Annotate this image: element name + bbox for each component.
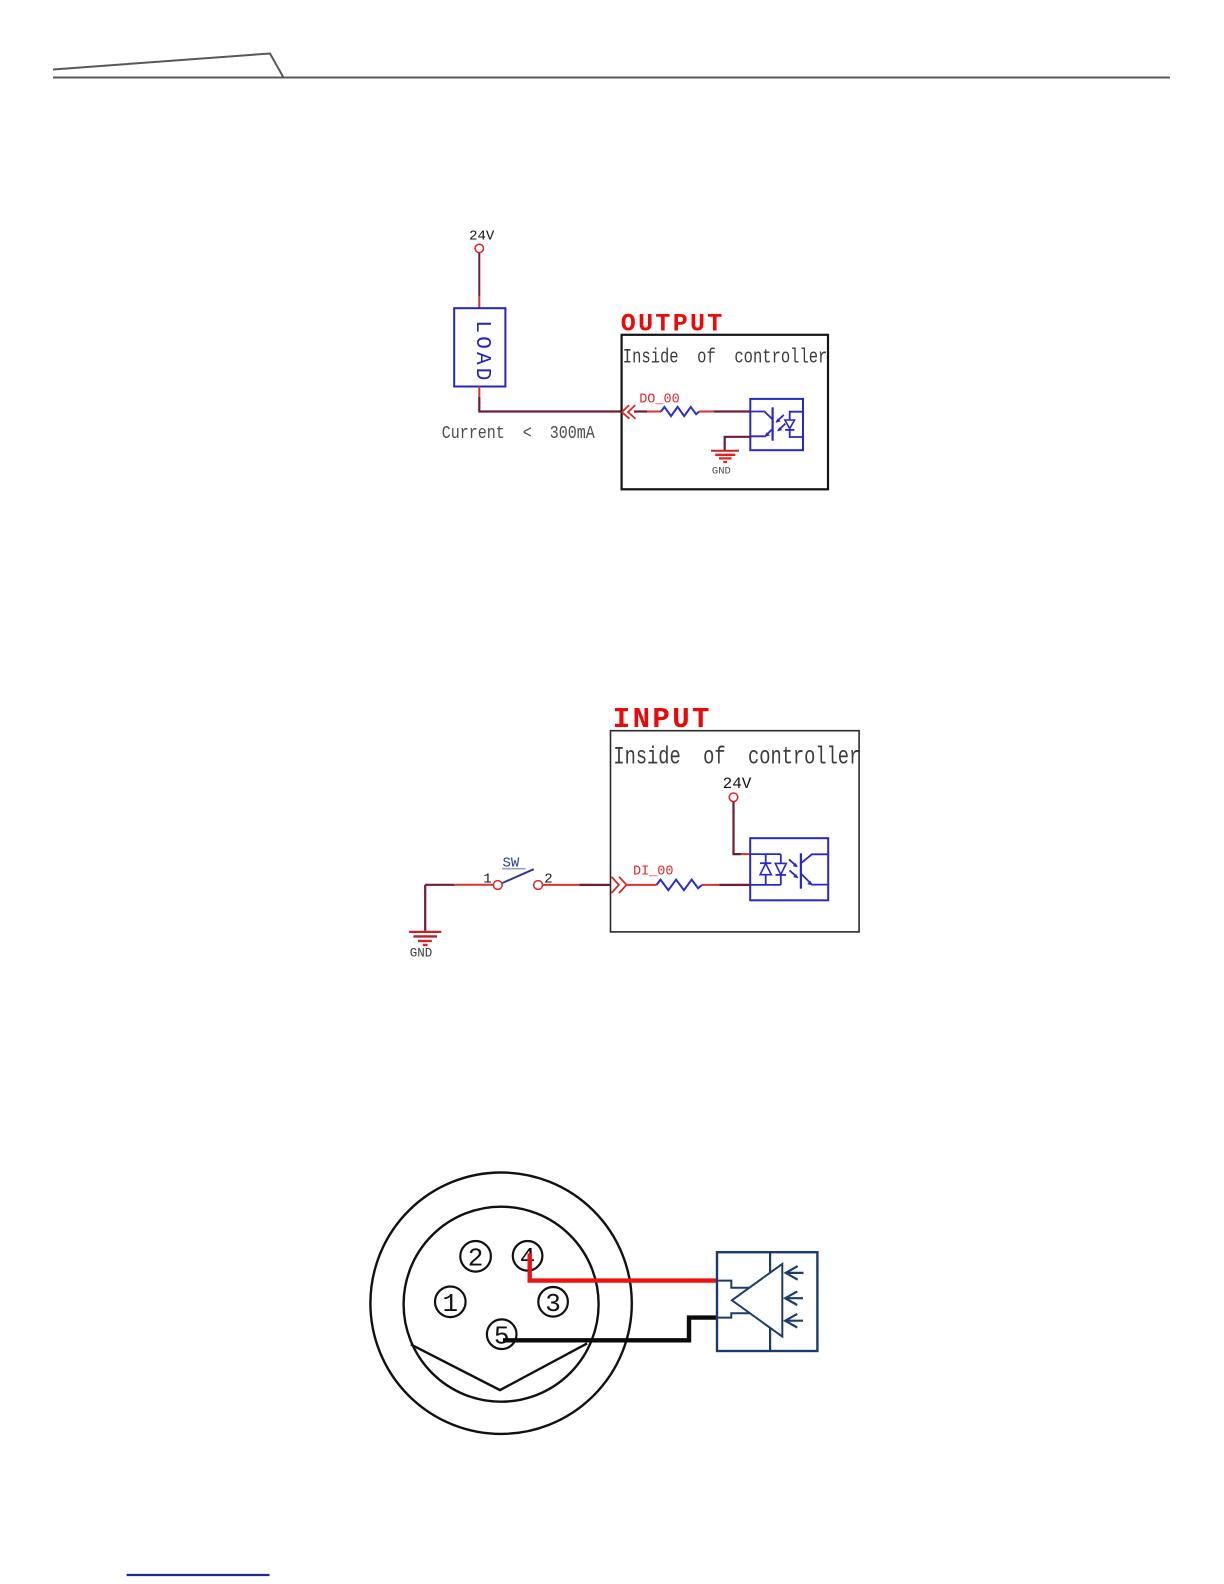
svg-text:24V: 24V xyxy=(723,775,752,793)
switch SW underline xyxy=(502,868,526,870)
photo sensor cathode pin step xyxy=(717,1313,750,1317)
U-in phototransistor base bar xyxy=(800,853,802,888)
svg-text:3: 3 xyxy=(545,1289,561,1319)
switch pin 2 circle xyxy=(534,881,543,890)
controller box (output) xyxy=(622,335,828,490)
svg-text:1: 1 xyxy=(442,1289,458,1319)
resistor LOAD box xyxy=(454,308,505,386)
pin stub resistor R-out left xyxy=(647,411,661,413)
svg-text:DI_00: DI_00 xyxy=(633,864,674,879)
photodiode triangle xyxy=(732,1264,782,1337)
resistor R-out zigzag xyxy=(661,407,699,416)
ground GND (input) xyxy=(409,931,441,933)
wire GND to switch pin 1 xyxy=(425,884,454,886)
svg-text:GND: GND xyxy=(712,466,731,478)
U-out LED cathode lead xyxy=(790,430,803,437)
connector pin 5 xyxy=(487,1319,517,1349)
wire switch pin 2 to DI_00 port xyxy=(543,884,580,886)
svg-text:GND: GND xyxy=(410,947,433,961)
connector keyway V xyxy=(411,1343,587,1390)
wire 24V to U-in xyxy=(734,802,742,854)
power terminal circle 24V (input) xyxy=(729,793,738,802)
pin stub U-in anode xyxy=(741,853,750,855)
U-in top rail xyxy=(750,853,781,855)
wire 24V to LOAD xyxy=(478,253,480,296)
header rule xyxy=(53,77,1170,79)
wire U-out emitter to GND xyxy=(725,437,751,451)
header tab diagonal xyxy=(53,54,284,78)
U-in bottom rail xyxy=(750,884,781,886)
controller box (input) xyxy=(611,731,860,932)
wire resistor to U-in xyxy=(720,884,751,886)
U-in phototransistor emitter with arrow xyxy=(801,874,828,885)
photo sensor anode pin step xyxy=(717,1281,750,1288)
light arrow 3 xyxy=(785,1314,797,1328)
port chevron >> DI_00 xyxy=(612,877,619,893)
U-out LED triangle xyxy=(785,420,795,429)
light arrow 2 xyxy=(785,1291,797,1305)
U-in light arrow 1 xyxy=(789,859,797,866)
photo sensor box xyxy=(717,1252,817,1351)
red wire pin4 to sensor xyxy=(530,1254,717,1281)
photo sensor divider xyxy=(769,1252,771,1351)
U-in LED D1 lower stub xyxy=(765,875,767,885)
optocoupler U-in box xyxy=(750,838,828,900)
U-in LED D1 cathode bar xyxy=(760,862,771,864)
power terminal circle 24V (output) xyxy=(475,244,483,252)
connector pin 2 xyxy=(460,1241,491,1272)
connector pin 1 xyxy=(435,1287,466,1318)
U-out light arrow 2 xyxy=(778,424,785,431)
footer rule xyxy=(127,1574,270,1576)
U-in LED D2 lower stub xyxy=(780,875,782,885)
U-in LED D2 triangle (down) xyxy=(775,863,786,874)
optocoupler U-out box xyxy=(750,399,803,450)
resistor R-in zigzag xyxy=(657,880,702,891)
U-in LED D1 up stub xyxy=(765,854,767,863)
svg-text:2: 2 xyxy=(468,1244,484,1274)
black wire pin5 to sensor xyxy=(503,1318,717,1341)
pin stub resistor R-out right xyxy=(699,411,713,413)
U-in LED D1 triangle (up) xyxy=(760,863,771,874)
pin stub LOAD top xyxy=(478,296,480,308)
svg-text:Current < 300mA: Current < 300mA xyxy=(442,423,596,444)
svg-text:LOAD: LOAD xyxy=(470,320,493,383)
pin stub LOAD bottom xyxy=(478,387,480,398)
pin stub resistor R-in left xyxy=(627,884,657,886)
wire DO_00 chevron to resistor xyxy=(634,410,647,412)
connector outer circle xyxy=(370,1173,631,1434)
ground GND (output) xyxy=(711,450,739,452)
wire resistor to optocoupler U-out xyxy=(714,410,751,412)
pin stub resistor R-in right xyxy=(702,884,720,886)
svg-text:24V: 24V xyxy=(469,229,495,245)
U-out LED cathode bar xyxy=(785,429,794,431)
svg-text:DO_00: DO_00 xyxy=(639,393,680,408)
connector inner circle xyxy=(404,1207,599,1402)
U-out LED anode lead xyxy=(790,412,803,420)
connector pin 4 xyxy=(513,1241,543,1271)
svg-text:Inside of controller: Inside of controller xyxy=(623,347,828,369)
port chevron << DO_00 xyxy=(622,405,630,419)
U-out phototransistor collector xyxy=(750,412,772,420)
switch pin 1 circle xyxy=(493,881,502,890)
svg-text:Inside of controller: Inside of controller xyxy=(613,743,860,771)
svg-text:5: 5 xyxy=(494,1322,510,1352)
U-out light arrow 1 xyxy=(776,415,783,422)
U-in LED D2 cathode bar xyxy=(776,874,787,876)
switch blade xyxy=(502,869,533,883)
wire LOAD to DO_00 port xyxy=(479,397,621,412)
U-in LED D2 upper stub xyxy=(780,854,782,863)
wire GND riser (input) xyxy=(424,885,426,931)
U-out phototransistor base bar xyxy=(771,407,773,440)
connector pin 3 xyxy=(538,1287,568,1317)
U-in phototransistor collector xyxy=(801,854,828,863)
light arrow 1 xyxy=(786,1266,798,1280)
U-out phototransistor emitter with arrow xyxy=(750,429,772,437)
U-in light arrow 2 xyxy=(790,870,798,877)
